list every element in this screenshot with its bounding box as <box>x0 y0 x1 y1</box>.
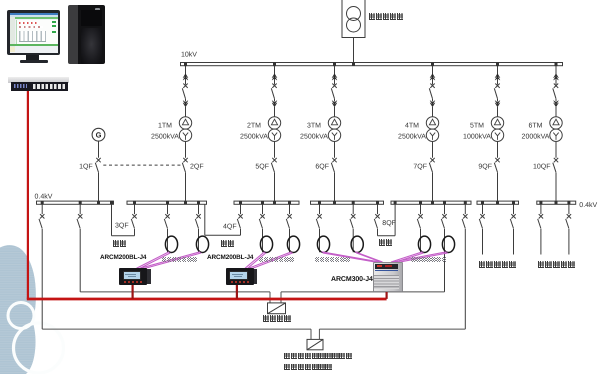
PC tower (monitoring host) <box>68 5 105 64</box>
outgoing feeder breaker (bus F) <box>482 205 484 215</box>
wire: important-load loop bottom right horizontal <box>319 328 465 330</box>
outgoing feeder breaker (bus F) <box>513 205 515 215</box>
outgoing feeder breaker (bus B, lighting/power) <box>198 205 200 215</box>
source transformer (regional substation) <box>342 0 365 38</box>
wire: bus to drawout contact (5TM feeder) <box>497 66 499 85</box>
outgoing feeder breaker (bus G) <box>540 205 542 215</box>
generator breaker 1QF <box>96 158 100 162</box>
wire (1TM feeder) <box>185 99 187 102</box>
0.4kV bus segment G2 <box>537 201 576 204</box>
node on 0.4kV bus x=289 <box>288 201 291 205</box>
node on 0.4kV bus x=79.7 <box>79 201 82 205</box>
wire: transformer 6TM to breaker 10QF <box>555 141 557 157</box>
outgoing feeder breaker (bus G) <box>568 205 570 215</box>
label: tie (lianluo) 4QF <box>221 240 236 247</box>
node on 0.4kV bus x=334 <box>333 201 336 205</box>
node on 0.4kV bus x=185 <box>184 201 187 205</box>
CT signal wire 8 (magenta pair) <box>393 252 447 262</box>
drawout contact arrow up (4TM feeder) <box>430 74 435 78</box>
wire (3TM feeder) <box>334 99 336 102</box>
drawout contact arrow up (2TM feeder) <box>272 74 277 78</box>
wire: bus to drawout contact (4TM feeder) <box>432 66 434 85</box>
drawout contact arrow down (6TM feeder) <box>554 103 559 107</box>
drawout contact arrow down (3TM feeder) <box>332 103 337 107</box>
RS485 drop to ARCM200BL-J4 #2 <box>236 284 238 299</box>
feeder 6TM tap node on 10kV bus <box>555 62 558 66</box>
drawout contact arrow up (1TM feeder) <box>183 74 188 78</box>
10kV circuit breaker (3TM feeder) <box>332 84 336 88</box>
tie 4QF: wire bus B end down <box>204 205 206 236</box>
tie breaker 3QF riser <box>134 205 136 215</box>
transformer 2TM 2500kVA (delta-wye) <box>268 117 280 129</box>
node on 0.4kV bus x=420 <box>419 201 422 205</box>
tie 3QF: wire bus A end down <box>111 205 113 236</box>
wire: fire-load loop right horizontal <box>281 291 445 293</box>
tie breaker 8QF riser (bus D side) <box>377 205 379 215</box>
monitor stand <box>26 55 39 60</box>
CT signal wire 1 (magenta pair) <box>137 252 170 268</box>
10kV circuit breaker (5TM feeder) <box>495 84 499 88</box>
node on 0.4kV bus x=274 <box>273 201 276 205</box>
wire: breaker 9QF to 0.4kV bus <box>497 173 499 202</box>
node on 0.4kV bus x=444 <box>443 201 446 205</box>
feeder breaker + wire: bus E to important-load loop <box>464 205 466 215</box>
wire: fire-load loop left horizontal <box>80 291 270 293</box>
label ARCM300-J4 <box>330 276 372 283</box>
wire: contact to transformer 3TM <box>334 107 336 117</box>
LV main breaker 2QF <box>183 158 187 162</box>
current transformer CT5 on bus D feeder <box>317 236 329 252</box>
feeder 4TM tap node on 10kV bus <box>431 62 434 66</box>
label: living pumps / weak-current rooms line1 <box>284 353 353 360</box>
transformer 6TM 2000kVA (delta-wye) <box>550 117 562 129</box>
drawout contact arrow up (6TM feeder) <box>554 74 559 78</box>
CT signal wire 7 (magenta pair) <box>391 252 423 262</box>
node on 0.4kV bus x=497 <box>496 201 499 205</box>
wire: contact to transformer 4TM <box>432 107 434 117</box>
wire: transformer 3TM to breaker 6QF <box>334 141 336 157</box>
feeder breaker + wire: bus A to important-load loop <box>41 205 43 215</box>
node on 0.4kV bus x=394.6 <box>394 201 397 205</box>
node on 0.4kV bus x=540.4 <box>539 201 542 205</box>
wire: generator to breaker 1QF <box>98 141 100 158</box>
wire (2TM feeder) <box>274 99 276 102</box>
wire (4TM feeder) <box>432 99 434 102</box>
LV main breaker 6QF <box>332 158 336 162</box>
CT signal wire 3 (magenta pair) <box>245 252 265 268</box>
10kV circuit breaker (4TM feeder) <box>430 84 434 88</box>
feeder breaker + wire: bus A to fire-load loop <box>79 205 81 215</box>
node on 0.4kV bus x=111 <box>110 201 113 205</box>
wire: important-load loop bottom left horizontal <box>42 328 311 330</box>
node on 0.4kV bus x=167 <box>166 201 169 205</box>
transformer 4TM 2500kVA (delta-wye) <box>426 117 438 129</box>
monitor with SCADA software <box>7 10 61 55</box>
drawout contact arrow down (5TM feeder) <box>495 103 500 107</box>
ARCM200BL-J4 meter #1 <box>119 268 151 285</box>
10kV circuit breaker (1TM feeder) <box>183 84 187 88</box>
LV main breaker 5QF <box>272 158 276 162</box>
wire: breaker 6QF to 0.4kV bus <box>334 173 336 202</box>
node on 0.4kV bus x=134 <box>133 201 136 205</box>
outgoing feeder breaker (bus D, lighting/power) <box>319 205 321 215</box>
LV main breaker 9QF <box>495 158 499 162</box>
dashed interlock wire 1QF-2QF <box>103 164 181 166</box>
serial-server gateway <box>8 77 69 83</box>
node on 0.4kV bus x=240 <box>239 201 242 205</box>
node: substation tap on 10kV bus <box>352 62 355 66</box>
outgoing feeder breaker (bus D, lighting/power) <box>352 205 354 215</box>
feeder breaker + wire: bus E to fire-load loop <box>444 205 446 215</box>
CT signal wire 6 (magenta pair) <box>355 252 383 262</box>
node on 0.4kV bus x=464.8 <box>464 201 467 205</box>
wire (6TM feeder) <box>555 99 557 102</box>
node on 0.4kV bus x=432 <box>431 201 434 205</box>
node on 0.4kV bus x=98 <box>97 201 100 205</box>
label: fire load <box>263 315 292 322</box>
drawout contact arrow up (3TM feeder) <box>332 74 337 78</box>
0.4kV bus segment A <box>37 201 114 204</box>
wire: contact to transformer 5TM <box>497 107 499 117</box>
node on 0.4kV bus x=319 <box>318 201 321 205</box>
wire: transformer 5TM to breaker 9QF <box>497 141 499 157</box>
0.4kV bus segment C <box>234 201 299 204</box>
wire: substation to 10kV bus <box>353 38 355 63</box>
transformer 3TM 2500kVA (delta-wye) <box>328 117 340 129</box>
10kV circuit breaker (2TM feeder) <box>272 84 276 88</box>
tie 4QF: bottom wire <box>205 234 241 236</box>
LV main breaker 7QF <box>430 158 434 162</box>
RS485 drop to ARCM300-J4 <box>386 288 388 299</box>
wire: bus to drawout contact (1TM feeder) <box>185 66 187 85</box>
wire: stub down to fire load <box>269 292 271 303</box>
wire: bus to drawout contact (3TM feeder) <box>334 66 336 85</box>
generator G <box>92 128 105 141</box>
feeder 2TM tap node on 10kV bus <box>273 62 276 66</box>
0.4kV bus segment E <box>391 201 471 204</box>
feeder 3TM tap node on 10kV bus <box>333 62 336 66</box>
current transformer CT1 on bus B feeder <box>165 236 177 252</box>
node on 0.4kV bus x=41.7 <box>41 201 44 205</box>
node on 0.4kV bus x=377 <box>376 201 379 205</box>
ARCM200BL-J4 meter #2 <box>226 268 258 285</box>
label: residential meter boxes <box>479 261 517 268</box>
node on 0.4kV bus x=352.7 <box>352 201 355 205</box>
CT signal wire 4 (magenta pair) <box>249 252 292 268</box>
current transformer CT3 on bus C feeder <box>260 236 272 252</box>
node on 0.4kV bus x=555.5 <box>555 201 558 205</box>
wire: stub down to important load <box>310 329 312 339</box>
transformer 5TM 1000kVA (delta-wye) <box>491 117 503 129</box>
tie 8QF: wire up to bus E <box>394 205 396 236</box>
wire (5TM feeder) <box>497 99 499 102</box>
load: important loads (pumps/elevators) <box>307 339 323 349</box>
10kV circuit breaker (6TM feeder) <box>554 84 558 88</box>
wire: breaker 1QF to 0.4kV bus <box>98 173 100 202</box>
wire: breaker 10QF to 0.4kV bus <box>555 173 557 202</box>
outgoing feeder breaker (bus C, lighting/power) <box>262 205 264 215</box>
node on 0.4kV bus x=262 <box>261 201 264 205</box>
wire: breaker 5QF to 0.4kV bus <box>274 173 276 202</box>
tie 3QF: bottom wire <box>112 235 135 237</box>
wire: contact to transformer 1TM <box>185 107 187 117</box>
label: lighting/power loads #1 <box>162 257 198 262</box>
transformer 1TM 2500kVA (delta-wye) <box>179 117 191 129</box>
RS485 red trunk: horizontal <box>27 298 387 301</box>
label: lighting/power loads #4 <box>411 257 447 262</box>
label: elevators and other important loads line2 <box>284 364 332 371</box>
drawout contact arrow up (5TM feeder) <box>495 74 500 78</box>
wire: transformer 2TM to breaker 5QF <box>274 141 276 157</box>
tie 8QF: bottom wire <box>378 235 396 237</box>
wire: bus to drawout contact (6TM feeder) <box>555 66 557 85</box>
wire: contact to transformer 2TM <box>274 107 276 117</box>
current transformer CT6 on bus D feeder <box>351 236 363 252</box>
ARCM300-J4 meter <box>373 262 401 290</box>
label: lighting/power loads #3 <box>315 257 351 262</box>
node on 0.4kV bus x=568.4 <box>567 201 570 205</box>
current transformer CT8 on bus E feeder <box>442 236 454 252</box>
label: tie (lianluo) 3QF <box>113 240 128 247</box>
current transformer CT7 on bus E feeder <box>418 236 430 252</box>
outgoing feeder breaker (bus E, lighting/power) <box>420 205 422 215</box>
label ARCM200BL-J4 #1 <box>99 254 145 261</box>
current transformer CT4 on bus C feeder <box>287 236 299 252</box>
node on 0.4kV bus x=198 <box>197 201 200 205</box>
node on 0.4kV bus x=482 <box>481 201 484 205</box>
wire: stub up from fire load <box>280 292 282 303</box>
wire: bus to drawout contact (2TM feeder) <box>274 66 276 85</box>
tie breaker 4QF riser <box>240 205 242 215</box>
wire: breaker 7QF to 0.4kV bus <box>432 173 434 202</box>
wire: contact to transformer 6TM <box>555 107 557 117</box>
wire: transformer 1TM to breaker 2QF <box>185 141 187 157</box>
0.4kV bus segment F <box>477 201 519 204</box>
label: regional substation (quyubiandianzhan) <box>369 13 404 20</box>
CT signal wire 2 (magenta pair) <box>140 252 200 268</box>
wire: breaker 2QF to 0.4kV bus <box>185 173 187 202</box>
CT signal wire 5 (magenta pair) <box>322 252 381 262</box>
current transformer CT2 on bus B feeder <box>196 236 208 252</box>
wire: transformer 4TM to breaker 7QF <box>432 141 434 157</box>
drawout contact arrow down (4TM feeder) <box>430 103 435 107</box>
wire: stub up from important load <box>318 329 320 339</box>
node on 0.4kV bus x=513 <box>512 201 515 205</box>
watermark big arc <box>14 323 64 373</box>
outgoing feeder breaker (bus C, lighting/power) <box>289 205 291 215</box>
label ARCM200BL-J4 #2 <box>206 254 252 261</box>
outgoing feeder breaker (bus B, lighting/power) <box>167 205 169 215</box>
RS485 drop to ARCM200BL-J4 #1 <box>132 284 134 299</box>
0.4kV bus segment D <box>311 201 384 204</box>
feeder 5TM tap node on 10kV bus <box>496 62 499 66</box>
10kV bus <box>181 63 563 66</box>
0.4kV bus segment B <box>127 201 207 204</box>
drawout contact arrow down (2TM feeder) <box>272 103 277 107</box>
drawout contact arrow down (1TM feeder) <box>183 103 188 107</box>
load: fire load (xiaofang fuhe) <box>268 303 286 314</box>
label: A/C power station <box>538 261 576 268</box>
LV main breaker 10QF <box>554 158 558 162</box>
feeder 1TM tap node on 10kV bus <box>184 62 187 66</box>
watermark small ring <box>8 303 34 329</box>
label: lighting/power loads #2 <box>259 257 295 262</box>
label: tie (lianluo) 8QF <box>379 239 394 246</box>
